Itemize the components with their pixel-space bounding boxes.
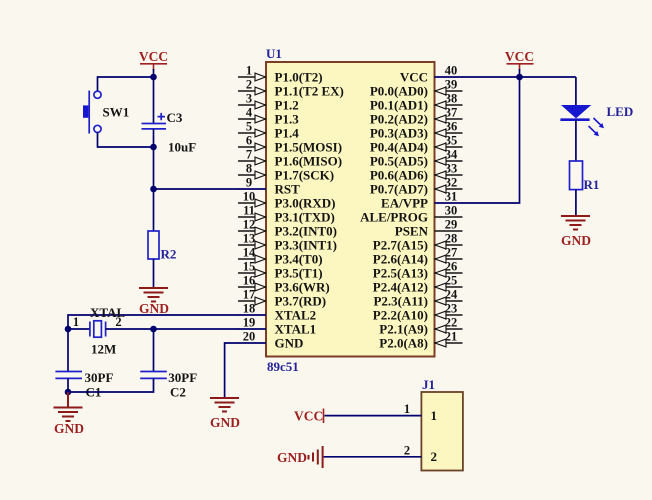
svg-text:P2.5(A13): P2.5(A13) xyxy=(373,266,428,281)
svg-text:P1.5(MOSI): P1.5(MOSI) xyxy=(275,140,343,155)
svg-text:38: 38 xyxy=(445,92,458,106)
wire pin 40 VCC run xyxy=(462,76,576,78)
node XTAL1 junction xyxy=(150,326,157,333)
svg-text:C2: C2 xyxy=(170,385,186,400)
pin 19 XTAL1 (left) xyxy=(238,316,316,337)
svg-text:SW1: SW1 xyxy=(103,105,130,120)
svg-text:14: 14 xyxy=(243,246,256,260)
power VCC (J1 pin1) xyxy=(294,409,324,424)
svg-text:XTAL1: XTAL1 xyxy=(275,322,317,337)
svg-text:6: 6 xyxy=(246,134,252,148)
pin 18 XTAL2 (left) xyxy=(238,302,316,323)
capacitor C3 polarized xyxy=(142,113,167,129)
pin number 2 (J1) xyxy=(404,444,410,458)
svg-text:35: 35 xyxy=(445,134,458,148)
svg-text:36: 36 xyxy=(445,120,458,134)
svg-text:11: 11 xyxy=(243,204,255,218)
wire VCC to LED xyxy=(575,77,577,105)
ground below R2 xyxy=(139,288,168,302)
svg-text:XTAL2: XTAL2 xyxy=(275,308,317,323)
svg-text:32: 32 xyxy=(445,176,458,190)
svg-text:P1.4: P1.4 xyxy=(275,126,300,141)
power GND (J1 pin2) xyxy=(277,446,323,468)
pin 37 P0.2(AD2) (right) xyxy=(370,106,463,127)
svg-text:21: 21 xyxy=(445,330,458,344)
crystal XTAL 12M xyxy=(90,321,106,337)
wire SW1 bottom to C3 node xyxy=(98,133,154,148)
svg-text:22: 22 xyxy=(445,316,458,330)
svg-text:GND: GND xyxy=(561,233,591,248)
svg-text:P2.7(A15): P2.7(A15) xyxy=(373,238,428,253)
pin 16 P3.6(WR) (left) xyxy=(238,274,330,295)
svg-text:P3.5(T1): P3.5(T1) xyxy=(275,266,323,281)
diode LED xyxy=(560,105,604,136)
capacitor C2 30PF xyxy=(140,372,167,379)
svg-text:P0.3(AD3): P0.3(AD3) xyxy=(370,126,428,141)
svg-text:30PF: 30PF xyxy=(85,370,114,385)
pin 27 P2.6(A14) (right) xyxy=(373,246,463,267)
pin 21 P2.0(A8) (right) xyxy=(379,330,462,351)
svg-text:39: 39 xyxy=(445,78,458,92)
pin 22 P2.1(A9) (right) xyxy=(379,316,462,337)
svg-text:P2.6(A14): P2.6(A14) xyxy=(373,252,428,267)
designator U1 xyxy=(266,46,282,61)
pin 13 P3.3(INT1) (left) xyxy=(238,232,337,253)
svg-text:P3.4(T0): P3.4(T0) xyxy=(275,252,323,267)
connector J1 body xyxy=(421,392,463,471)
resistor R1 xyxy=(570,161,583,190)
svg-text:31: 31 xyxy=(445,190,458,204)
svg-text:5: 5 xyxy=(246,120,252,134)
pin 36 P0.3(AD3) (right) xyxy=(370,120,463,141)
op-amp U1 89c51 IC body xyxy=(266,62,435,357)
svg-text:P3.6(WR): P3.6(WR) xyxy=(275,280,330,295)
wire VCC node down to C3 xyxy=(153,77,155,124)
value 10uF xyxy=(168,140,196,155)
svg-text:PSEN: PSEN xyxy=(395,224,429,239)
svg-text:P2.1(A9): P2.1(A9) xyxy=(379,322,428,337)
svg-text:ALE/PROG: ALE/PROG xyxy=(360,210,428,225)
wire XTAL1 node to pin 19 xyxy=(154,328,239,330)
resistor R2 xyxy=(148,231,159,259)
pin 35 P0.4(AD4) (right) xyxy=(370,134,463,155)
wire VCC node to SW1 top xyxy=(98,77,154,91)
svg-text:P1.0(T2): P1.0(T2) xyxy=(275,70,323,85)
svg-text:13: 13 xyxy=(243,232,256,246)
svg-text:P0.0(AD0): P0.0(AD0) xyxy=(370,84,428,99)
pin 1 P1.0(T2) (left) xyxy=(238,64,323,85)
pin 32 P0.7(AD7) (right) xyxy=(370,176,463,197)
svg-text:GND: GND xyxy=(54,421,84,436)
pin 14 P3.4(T0) (left) xyxy=(238,246,323,267)
wire crystal node down to C1 xyxy=(67,329,69,372)
svg-text:R1: R1 xyxy=(584,177,600,192)
designator J1 xyxy=(422,377,435,392)
wire node to crystal xyxy=(68,328,90,330)
svg-text:24: 24 xyxy=(445,288,458,302)
svg-text:P2.0(A8): P2.0(A8) xyxy=(379,336,428,351)
svg-text:LED: LED xyxy=(607,104,634,119)
svg-text:2: 2 xyxy=(431,449,438,464)
node VCC/SW1/C3 junction xyxy=(150,74,157,81)
svg-text:26: 26 xyxy=(445,260,458,274)
svg-text:P3.7(RD): P3.7(RD) xyxy=(275,294,327,309)
pin number 1 (J1) xyxy=(404,402,410,416)
wire node down to RST node xyxy=(153,147,155,189)
svg-text:27: 27 xyxy=(445,246,458,260)
svg-text:10uF: 10uF xyxy=(168,140,196,155)
svg-text:P3.2(INT0): P3.2(INT0) xyxy=(275,224,337,239)
pin number 1 (crystal) xyxy=(73,315,79,329)
svg-text:P3.3(INT1): P3.3(INT1) xyxy=(275,238,337,253)
svg-text:1: 1 xyxy=(404,402,410,416)
svg-text:GND: GND xyxy=(277,450,307,465)
label C3 xyxy=(167,110,183,125)
svg-text:R2: R2 xyxy=(161,247,177,262)
pin 8 P1.7(SCK) (left) xyxy=(238,162,334,183)
svg-text:VCC: VCC xyxy=(139,49,168,64)
svg-text:GND: GND xyxy=(210,415,240,430)
ground below pin 20 xyxy=(210,398,239,412)
wire RST node to pin 9 xyxy=(154,188,239,190)
svg-text:7: 7 xyxy=(246,148,252,162)
svg-text:VCC: VCC xyxy=(505,49,534,64)
wire RST node down to R2 xyxy=(153,189,155,231)
svg-text:1: 1 xyxy=(431,408,438,423)
pin 3 P1.2 (left) xyxy=(238,92,299,113)
svg-text:10: 10 xyxy=(243,190,256,204)
svg-text:34: 34 xyxy=(445,148,458,162)
svg-text:VCC: VCC xyxy=(400,70,428,85)
pin 23 P2.2(A10) (right) xyxy=(373,302,463,323)
pin 38 P0.1(AD1) (right) xyxy=(370,92,463,113)
svg-text:19: 19 xyxy=(243,316,256,330)
capacitor C1 30PF xyxy=(55,372,82,379)
designator R2 xyxy=(161,247,177,262)
svg-text:P1.1(T2 EX): P1.1(T2 EX) xyxy=(275,84,344,99)
value 30PF (C2) xyxy=(168,370,197,385)
svg-text:P2.2(A10): P2.2(A10) xyxy=(373,308,428,323)
svg-text:GND: GND xyxy=(275,336,304,351)
wire VCC stem xyxy=(519,69,521,77)
designator R1 xyxy=(584,177,600,192)
svg-text:J1: J1 xyxy=(422,377,435,392)
svg-text:P0.2(AD2): P0.2(AD2) xyxy=(370,112,428,127)
pin 34 P0.5(AD5) (right) xyxy=(370,148,463,169)
node crystal pin1 junction xyxy=(65,326,72,333)
wire LED to R1 xyxy=(575,120,577,161)
node SW1/C3 junction xyxy=(150,144,157,151)
svg-text:P1.3: P1.3 xyxy=(275,112,300,127)
svg-text:89c51: 89c51 xyxy=(267,359,299,374)
node C1/C2 ground junction xyxy=(65,389,72,396)
designator C1 xyxy=(86,385,102,400)
pin 6 P1.5(MOSI) (left) xyxy=(238,134,342,155)
svg-text:P0.6(AD6): P0.6(AD6) xyxy=(370,168,428,183)
svg-text:VCC: VCC xyxy=(294,409,323,424)
pin 20 GND (left) xyxy=(238,330,303,351)
svg-text:2: 2 xyxy=(246,78,252,92)
pin 1 label inside J1 xyxy=(431,408,438,423)
svg-text:2: 2 xyxy=(115,315,121,329)
svg-text:17: 17 xyxy=(243,288,256,302)
pin number 2 (crystal) xyxy=(115,315,121,329)
wire J1 pin 2 xyxy=(324,456,422,458)
wire crystal pin2 to XTAL1 node xyxy=(106,328,154,330)
pin 33 P0.6(AD6) (right) xyxy=(370,162,463,183)
pin 2 label inside J1 xyxy=(431,449,438,464)
label XTAL xyxy=(90,305,125,320)
svg-text:GND: GND xyxy=(139,301,169,316)
pin 11 P3.1(TXD) (left) xyxy=(238,204,335,225)
svg-text:28: 28 xyxy=(445,232,458,246)
svg-text:8: 8 xyxy=(246,162,252,176)
value 30PF (C1) xyxy=(85,370,114,385)
svg-text:12M: 12M xyxy=(91,342,116,357)
svg-text:RST: RST xyxy=(275,182,301,197)
svg-text:2: 2 xyxy=(404,444,410,458)
svg-text:P0.1(AD1): P0.1(AD1) xyxy=(370,98,428,113)
wire EA/VPP vertical to pin 31 xyxy=(462,77,520,203)
pin 17 P3.7(RD) (left) xyxy=(238,288,326,309)
wire J1 pin 1 xyxy=(325,415,422,417)
pin 31 EA/VPP (right) xyxy=(381,190,462,211)
svg-text:U1: U1 xyxy=(266,46,282,61)
pin 24 P2.3(A11) (right) xyxy=(373,288,462,309)
svg-text:1: 1 xyxy=(73,315,79,329)
svg-text:3: 3 xyxy=(246,92,252,106)
svg-text:P0.7(AD7): P0.7(AD7) xyxy=(370,182,428,197)
wire C1 bottom to gnd node xyxy=(67,378,69,392)
svg-text:EA/VPP: EA/VPP xyxy=(381,196,428,211)
svg-text:P0.5(AD5): P0.5(AD5) xyxy=(370,154,428,169)
power VCC (top-right) xyxy=(505,49,534,70)
svg-text:P1.2: P1.2 xyxy=(275,98,299,113)
pin 7 P1.6(MISO) (left) xyxy=(238,148,342,169)
node VCC junction (right) xyxy=(516,74,523,81)
svg-text:16: 16 xyxy=(243,274,256,288)
wire C2 bottom across to gnd node xyxy=(68,378,154,392)
label SW1 xyxy=(103,105,130,120)
svg-text:18: 18 xyxy=(243,302,256,316)
svg-text:P2.3(A11): P2.3(A11) xyxy=(373,294,428,309)
svg-text:30PF: 30PF xyxy=(168,370,197,385)
label GND (R2) xyxy=(139,301,169,316)
pin 30 ALE/PROG (right) xyxy=(360,204,462,225)
svg-text:25: 25 xyxy=(445,274,458,288)
ground below C1 xyxy=(54,392,83,421)
wire R2 to ground xyxy=(153,259,155,288)
svg-text:33: 33 xyxy=(445,162,458,176)
value label 89c51 xyxy=(267,359,299,374)
pin 40 VCC (right) xyxy=(400,64,463,85)
label GND (C1) xyxy=(54,421,84,436)
pin 15 P3.5(T1) (left) xyxy=(238,260,323,281)
switch SW1 pushbutton xyxy=(83,91,101,134)
wire XTAL2 pin 18 run xyxy=(68,315,239,329)
ground below R1 xyxy=(561,216,590,230)
pin 2 P1.1(T2 EX) (left) xyxy=(238,78,344,99)
wire C3 bottom to node xyxy=(153,129,155,147)
pin 4 P1.3 (left) xyxy=(238,106,299,127)
power VCC (top-left) xyxy=(139,49,168,70)
svg-text:1: 1 xyxy=(246,64,252,78)
pin 25 P2.4(A12) (right) xyxy=(373,274,463,295)
pin 9 RST (left) xyxy=(238,176,300,197)
svg-text:23: 23 xyxy=(445,302,458,316)
svg-text:P3.0(RXD): P3.0(RXD) xyxy=(275,196,336,211)
wire node down to C2 xyxy=(153,329,155,372)
svg-text:P1.6(MISO): P1.6(MISO) xyxy=(275,154,343,169)
svg-text:30: 30 xyxy=(445,204,458,218)
pin 39 P0.0(AD0) (right) xyxy=(370,78,463,99)
svg-text:P3.1(TXD): P3.1(TXD) xyxy=(275,210,335,225)
label GND (R1) xyxy=(561,233,591,248)
pin 26 P2.5(A13) (right) xyxy=(373,260,463,281)
pin 5 P1.4 (left) xyxy=(238,120,299,141)
designator C2 xyxy=(170,385,186,400)
svg-text:P1.7(SCK): P1.7(SCK) xyxy=(275,168,335,183)
svg-text:4: 4 xyxy=(246,106,253,120)
pin 28 P2.7(A15) (right) xyxy=(373,232,463,253)
svg-text:15: 15 xyxy=(243,260,256,274)
svg-text:29: 29 xyxy=(445,218,458,232)
value 12M xyxy=(91,342,116,357)
wire GND pin 20 run xyxy=(225,343,239,397)
svg-text:12: 12 xyxy=(243,218,256,232)
label LED xyxy=(607,104,634,119)
svg-text:P2.4(A12): P2.4(A12) xyxy=(373,280,428,295)
svg-text:20: 20 xyxy=(243,330,256,344)
pin 12 P3.2(INT0) (left) xyxy=(238,218,337,239)
svg-text:40: 40 xyxy=(445,64,458,78)
node RST junction xyxy=(150,186,157,193)
svg-text:37: 37 xyxy=(445,106,458,120)
pin 10 P3.0(RXD) (left) xyxy=(238,190,336,211)
svg-text:C3: C3 xyxy=(167,110,183,125)
label GND (pin20) xyxy=(210,415,240,430)
wire R1 to ground xyxy=(575,190,577,216)
pin 29 PSEN (right) xyxy=(395,218,463,239)
wire VCC stem to node xyxy=(153,69,155,77)
svg-text:P0.4(AD4): P0.4(AD4) xyxy=(370,140,428,155)
svg-text:9: 9 xyxy=(246,176,252,190)
